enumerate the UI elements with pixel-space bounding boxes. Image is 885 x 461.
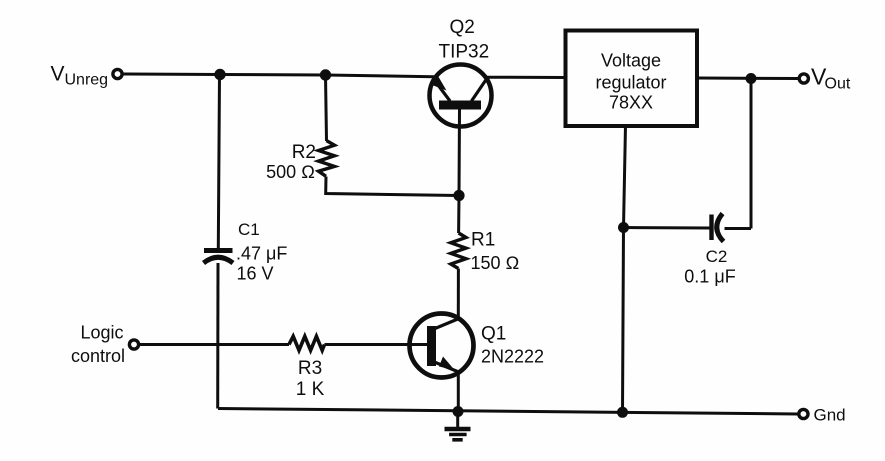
wire: top rail from Vunreg terminal to Q2 emitter (123, 74, 434, 77)
wire: regulator output to Vout terminal (698, 77, 798, 81)
wire: C1 bottom lead down to ground rail (216, 263, 219, 409)
transistor Q2 TIP32 (PNP) body circle (430, 65, 492, 127)
svg-text:Q2: Q2 (450, 17, 475, 38)
wire: node to R1 (457, 196, 460, 234)
wire: ground rail (218, 409, 798, 415)
terminal Logic control (129, 340, 138, 349)
capacitor C2 straight plate (709, 215, 713, 241)
transistor Q1 emitter arrow (439, 357, 455, 371)
wire: logic control to R3 (140, 343, 289, 346)
transistor Q2 emitter line (434, 79, 451, 101)
capacitor C1 straight plate (204, 248, 233, 253)
transistor Q1 collector line (435, 319, 459, 329)
wire: C2 right lead (725, 227, 752, 230)
node: junction top rail / R2 branch (320, 69, 331, 80)
svg-text:Q1: Q1 (481, 324, 506, 345)
transistor Q1 2N2222 (NPN) body circle (410, 314, 474, 378)
node: junction C2 / regulator ground (618, 222, 629, 233)
svg-text:control: control (71, 346, 125, 366)
svg-text:R1: R1 (471, 230, 495, 251)
transistor Q2 base bar (439, 101, 481, 110)
node: junction top rail / C1 branch (214, 69, 225, 80)
wire: R2 branch from top rail (326, 75, 327, 141)
svg-text:Logic: Logic (80, 323, 123, 343)
wire: R2 bottom lead to node (326, 177, 459, 196)
wire: regulator ground lead down to ground rail (623, 125, 626, 412)
resistor R1 zigzag (451, 233, 466, 269)
terminal Vout (799, 74, 808, 83)
svg-text:Voltage: Voltage (601, 51, 661, 71)
ground symbol (456, 412, 459, 428)
svg-text:16 V: 16 V (237, 264, 274, 284)
transistor Q1 emitter line (436, 363, 458, 372)
svg-text:78XX: 78XX (609, 93, 653, 113)
wire: C2 left lead to regulator ground line (624, 226, 710, 230)
svg-text:Out: Out (825, 76, 851, 93)
svg-text:500 Ω: 500 Ω (266, 162, 315, 182)
node: junction ground rail / Q1 emitter (453, 406, 464, 417)
svg-text:2N2222: 2N2222 (481, 347, 544, 367)
svg-text:150 Ω: 150 Ω (471, 253, 520, 273)
svg-text:R2: R2 (292, 142, 316, 163)
capacitor C1 curved plate (204, 257, 234, 263)
wire: R3 to Q1 base (325, 343, 428, 346)
svg-text:0.1 μF: 0.1 μF (684, 267, 735, 287)
resistor R3 zigzag (289, 336, 325, 350)
regulator U1 78XX box (566, 31, 698, 127)
svg-text:Unreg: Unreg (65, 72, 109, 89)
svg-text:TIP32: TIP32 (439, 42, 490, 63)
capacitor C2 curved plate (717, 214, 724, 242)
node: junction Vout / C2 branch (746, 73, 757, 84)
svg-text:Gnd: Gnd (814, 406, 846, 425)
svg-text:C2: C2 (706, 247, 728, 266)
wire: Q1 emitter down to ground rail (457, 372, 460, 412)
svg-text:regulator: regulator (595, 73, 666, 93)
svg-text:V: V (51, 63, 65, 86)
wire: Q2 collector to regulator input (486, 76, 566, 79)
svg-text:1 K: 1 K (296, 379, 325, 400)
terminal Vunreg (113, 69, 122, 78)
svg-text:R3: R3 (298, 358, 322, 379)
wire: R1 bottom to Q1 collector (457, 269, 460, 320)
wire: C1 branch from top rail down to C1 (218, 75, 219, 249)
node: junction regulator ground / ground rail (617, 407, 628, 418)
transistor Q1 base bar (427, 326, 436, 366)
transistor Q2 collector line (472, 79, 487, 101)
terminal Gnd (799, 409, 808, 418)
wire: Vout junction down to C2 (750, 79, 753, 229)
resistor R2 zigzag (319, 141, 335, 177)
node: junction R2 / R1 / Q2 base (453, 190, 464, 201)
svg-text:.47 μF: .47 μF (236, 244, 287, 264)
svg-text:C1: C1 (238, 220, 260, 239)
transistor Q2 emitter arrow (432, 76, 447, 91)
wire: Q2 base lead down to node R1/R2 (458, 110, 462, 196)
